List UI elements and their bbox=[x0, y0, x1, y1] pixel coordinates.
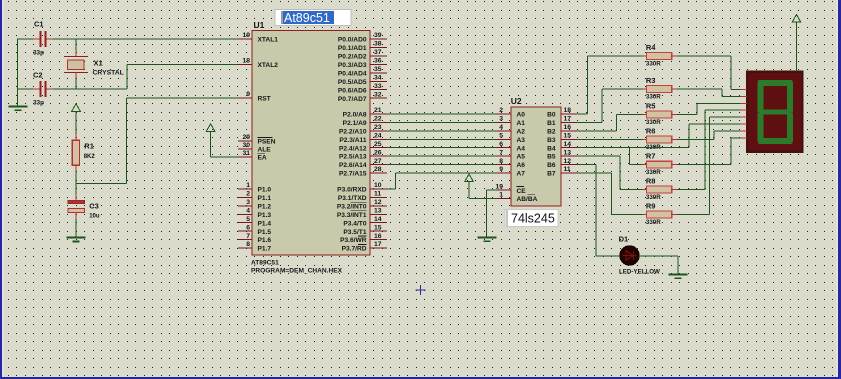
op chip U1 AT89C51 body bbox=[252, 20, 370, 255]
svg-text:33p: 33p bbox=[33, 50, 44, 57]
svg-text:15: 15 bbox=[374, 224, 382, 231]
svg-text:12: 12 bbox=[374, 199, 382, 206]
U1 pin 28 P2.7/A15 bbox=[339, 166, 387, 177]
svg-text:30: 30 bbox=[242, 142, 250, 149]
U2 pin 16 B2 bbox=[547, 124, 577, 135]
svg-text:P1.6: P1.6 bbox=[258, 237, 272, 244]
wire P2.1-A1 bbox=[387, 121, 497, 123]
svg-text:330R: 330R bbox=[646, 93, 661, 100]
svg-text:18: 18 bbox=[564, 107, 572, 114]
svg-text:P0.4/AD4: P0.4/AD4 bbox=[338, 70, 367, 77]
capacitor C2 bbox=[33, 71, 53, 107]
display pin stub 8 bbox=[740, 137, 747, 139]
svg-text:P1.7: P1.7 bbox=[258, 246, 272, 253]
svg-text:13: 13 bbox=[374, 208, 382, 215]
svg-text:P0.6/AD6: P0.6/AD6 bbox=[338, 87, 367, 94]
wire R9-display pin5 bbox=[677, 117, 740, 214]
display pin stub 5 bbox=[740, 116, 747, 118]
U1 pin 37 P0.2/AD2 bbox=[338, 49, 387, 60]
U2 pin 17 B1 bbox=[547, 116, 577, 127]
svg-text:R7: R7 bbox=[646, 152, 656, 161]
resistor R8 330R bbox=[643, 176, 677, 201]
wire P2.0-A0 bbox=[387, 113, 497, 115]
svg-text:5: 5 bbox=[499, 133, 503, 140]
U2 pin 14 B4 bbox=[547, 141, 577, 152]
wire R6-display pin7 bbox=[677, 131, 740, 140]
svg-text:8K2: 8K2 bbox=[84, 154, 96, 160]
svg-text:B7: B7 bbox=[547, 171, 556, 178]
svg-text:23: 23 bbox=[374, 124, 382, 131]
svg-text:P0.5/AD5: P0.5/AD5 bbox=[338, 79, 367, 86]
svg-text:RST: RST bbox=[258, 96, 271, 103]
svg-text:PSEN: PSEN bbox=[258, 139, 276, 146]
power arrow above R1 bbox=[72, 104, 81, 134]
wire XTAL2/C2 net bbox=[18, 64, 239, 89]
wire B4-R7 bbox=[577, 148, 689, 165]
svg-text:13: 13 bbox=[564, 149, 572, 156]
svg-text:P3.3/INT1: P3.3/INT1 bbox=[337, 212, 367, 219]
svg-text:34: 34 bbox=[374, 75, 382, 82]
resistor R5 330R bbox=[643, 101, 677, 126]
svg-text:P1.1: P1.1 bbox=[258, 195, 272, 202]
svg-text:10: 10 bbox=[374, 182, 382, 189]
svg-text:P0.2/AD2: P0.2/AD2 bbox=[338, 54, 367, 61]
74ls245 edit box bbox=[505, 210, 558, 227]
svg-text:14: 14 bbox=[564, 141, 572, 148]
wire R5-display pin3 bbox=[677, 103, 740, 114]
wire B3-R6 bbox=[577, 138, 643, 140]
U1 pin 27 P2.6/A14 bbox=[339, 158, 387, 169]
wire P3.0-A7 bbox=[387, 173, 497, 189]
svg-text:37: 37 bbox=[374, 49, 382, 56]
svg-text:R5: R5 bbox=[646, 101, 656, 110]
U1 pin 26 P2.5/A13 bbox=[339, 149, 387, 160]
svg-text:P0.7/AD7: P0.7/AD7 bbox=[338, 96, 367, 103]
svg-text:25: 25 bbox=[374, 141, 382, 148]
U1 pin 9 RST bbox=[238, 91, 271, 102]
svg-text:C3: C3 bbox=[89, 202, 99, 211]
svg-text:36: 36 bbox=[374, 58, 382, 65]
svg-text:P3.2/INT0: P3.2/INT0 bbox=[337, 203, 367, 210]
svg-text:17: 17 bbox=[374, 241, 382, 248]
svg-text:26: 26 bbox=[374, 149, 382, 156]
U1 pin 38 P0.1/AD1 bbox=[338, 41, 387, 52]
svg-text:A7: A7 bbox=[517, 171, 526, 178]
svg-text:A0: A0 bbox=[517, 112, 526, 119]
svg-text:R8: R8 bbox=[646, 176, 656, 185]
U2 pin 12 B6 bbox=[547, 158, 577, 169]
svg-text:P2.4/A12: P2.4/A12 bbox=[339, 145, 367, 152]
svg-text:D1: D1 bbox=[619, 234, 629, 243]
U1 pin 19 XTAL1 bbox=[238, 32, 278, 43]
svg-text:6: 6 bbox=[499, 141, 503, 148]
svg-text:B0: B0 bbox=[547, 112, 556, 119]
svg-text:R6: R6 bbox=[646, 126, 656, 135]
svg-text:8: 8 bbox=[246, 241, 250, 248]
svg-text:10u: 10u bbox=[89, 213, 100, 219]
svg-text:P3.4/T0: P3.4/T0 bbox=[343, 220, 366, 227]
U1 pin 31 EA bbox=[238, 150, 267, 161]
U2 pin 9 A7 bbox=[497, 166, 525, 177]
U1 pin 15 P3.5/T1 bbox=[343, 224, 387, 235]
wire R3-display pin2 bbox=[677, 89, 740, 96]
svg-text:P1.2: P1.2 bbox=[258, 203, 272, 210]
svg-text:LED-YELLOW: LED-YELLOW bbox=[619, 268, 660, 275]
U2 pin 2 A0 bbox=[497, 107, 525, 118]
display pin stub 1 bbox=[740, 89, 747, 91]
U1 pin 1 P1.0 bbox=[238, 182, 271, 193]
wire RST net bbox=[76, 98, 238, 194]
svg-text:35: 35 bbox=[374, 66, 382, 73]
wire XTAL1 net bbox=[18, 39, 239, 107]
svg-text:X1: X1 bbox=[94, 59, 103, 68]
svg-text:B5: B5 bbox=[547, 154, 556, 161]
wire R7-display pin8 bbox=[677, 138, 740, 165]
U1 pin 23 P2.2/A10 bbox=[339, 124, 387, 135]
svg-text:R1: R1 bbox=[84, 141, 94, 150]
display pin stub 2 bbox=[740, 95, 747, 97]
svg-text:12: 12 bbox=[564, 158, 572, 165]
svg-text:8: 8 bbox=[499, 158, 503, 165]
U1 pin 16 P3.6/WR bbox=[340, 233, 387, 244]
svg-text:B6: B6 bbox=[547, 162, 556, 169]
svg-text:B1: B1 bbox=[547, 120, 556, 127]
wire R8-display pin4 bbox=[677, 110, 740, 189]
svg-text:74ls245: 74ls245 bbox=[511, 212, 555, 226]
wire D1-ground bbox=[639, 256, 678, 273]
svg-text:P2.3/A11: P2.3/A11 bbox=[339, 137, 366, 144]
svg-text:P0.3/AD3: P0.3/AD3 bbox=[338, 62, 367, 69]
svg-text:11: 11 bbox=[564, 166, 571, 173]
svg-text:3: 3 bbox=[246, 199, 250, 206]
U2 pin 7 A5 bbox=[497, 149, 525, 160]
svg-text:31: 31 bbox=[242, 150, 250, 157]
svg-text:R3: R3 bbox=[646, 76, 656, 85]
U2 pin 15 B3 bbox=[547, 133, 577, 144]
svg-text:2: 2 bbox=[499, 107, 503, 114]
U1 pin 17 P3.7/RD bbox=[342, 241, 387, 252]
U1 pin 10 P3.0/RXD bbox=[337, 182, 387, 193]
svg-text:P0.0/AD0: P0.0/AD0 bbox=[338, 37, 367, 44]
display pin stub 7 bbox=[740, 130, 747, 132]
svg-text:24: 24 bbox=[374, 133, 382, 140]
resistor R3 330R bbox=[643, 76, 677, 101]
svg-text:R4: R4 bbox=[646, 43, 656, 52]
ground (left, below C2) bbox=[9, 105, 28, 111]
chip U2 74LS245 body bbox=[511, 96, 561, 206]
svg-text:4: 4 bbox=[499, 124, 503, 131]
wire B6-D1 bbox=[577, 165, 620, 256]
U1 pin 12 P3.2/INT0 bbox=[337, 199, 387, 210]
ground (right of D1) bbox=[668, 273, 687, 279]
svg-text:330R: 330R bbox=[646, 219, 661, 226]
crystal X1 bbox=[64, 51, 124, 79]
U2 pin 5 A3 bbox=[497, 133, 525, 144]
U1 pin 21 P2.0/A8 bbox=[343, 107, 387, 118]
svg-text:16: 16 bbox=[564, 124, 572, 131]
svg-text:28: 28 bbox=[374, 166, 382, 173]
svg-text:7: 7 bbox=[499, 149, 503, 156]
wire P2.2-A2 bbox=[387, 130, 497, 132]
U1 pin 32 P0.7/AD7 bbox=[338, 91, 387, 102]
U1 pin 14 P3.4/T0 bbox=[343, 216, 387, 227]
svg-text:A5: A5 bbox=[517, 154, 526, 161]
svg-text:C2: C2 bbox=[33, 71, 43, 80]
svg-text:XTAL2: XTAL2 bbox=[258, 62, 279, 69]
svg-text:330R: 330R bbox=[646, 119, 661, 126]
svg-text:P3.5/T1: P3.5/T1 bbox=[343, 229, 366, 236]
svg-text:U2: U2 bbox=[511, 96, 522, 106]
svg-text:19: 19 bbox=[242, 32, 250, 39]
U2 pin 1 AB/BA bbox=[497, 192, 538, 203]
svg-text:1: 1 bbox=[499, 192, 503, 199]
svg-text:19: 19 bbox=[495, 183, 503, 190]
svg-text:P2.5/A13: P2.5/A13 bbox=[339, 154, 367, 161]
wire P2.5-A5 bbox=[387, 155, 497, 157]
U1 pin 34 P0.5/AD5 bbox=[338, 75, 387, 86]
U2 pin 8 A6 bbox=[497, 158, 525, 169]
U1 pin 8 P1.7 bbox=[238, 241, 271, 252]
wire B0-R4 bbox=[577, 56, 643, 114]
svg-text:P3.6/WR: P3.6/WR bbox=[340, 237, 367, 244]
svg-text:P2.1/A9: P2.1/A9 bbox=[343, 120, 367, 127]
svg-text:C1: C1 bbox=[34, 20, 44, 29]
svg-text:39: 39 bbox=[374, 32, 382, 39]
svg-text:7: 7 bbox=[246, 233, 250, 240]
power arrow near EA bbox=[206, 124, 238, 157]
U1 pin 6 P1.5 bbox=[238, 224, 271, 235]
svg-text:P0.1/AD1: P0.1/AD1 bbox=[338, 45, 367, 52]
svg-text:P1.5: P1.5 bbox=[258, 229, 272, 236]
svg-text:P1.3: P1.3 bbox=[258, 212, 272, 219]
U1 pin 39 P0.0/AD0 bbox=[338, 32, 387, 43]
svg-text:A4: A4 bbox=[517, 145, 526, 152]
U1 pin 22 P2.1/A9 bbox=[343, 116, 387, 127]
svg-text:9: 9 bbox=[499, 166, 503, 173]
svg-text:33p: 33p bbox=[33, 100, 44, 107]
svg-text:ALE: ALE bbox=[258, 147, 272, 154]
svg-text:3: 3 bbox=[499, 116, 503, 123]
svg-text:P3.1/TXD: P3.1/TXD bbox=[338, 195, 367, 202]
svg-text:32: 32 bbox=[374, 91, 382, 98]
svg-text:P3.0/RXD: P3.0/RXD bbox=[337, 187, 367, 194]
svg-text:21: 21 bbox=[374, 107, 382, 114]
svg-text:11: 11 bbox=[374, 191, 381, 198]
U1 pin 25 P2.4/A12 bbox=[339, 141, 387, 152]
U1 pin 18 XTAL2 bbox=[238, 58, 278, 69]
svg-text:15: 15 bbox=[564, 133, 572, 140]
U1 pin 11 P3.1/TXD bbox=[338, 191, 387, 202]
svg-text:9: 9 bbox=[246, 91, 250, 98]
svg-text:U1: U1 bbox=[254, 20, 265, 30]
U2 pin 13 B5 bbox=[547, 149, 577, 160]
svg-text:At89c51: At89c51 bbox=[284, 11, 330, 25]
wire P2.6-A6 bbox=[387, 164, 497, 166]
svg-text:330R: 330R bbox=[646, 169, 661, 176]
svg-text:EA: EA bbox=[258, 154, 267, 161]
svg-text:5: 5 bbox=[246, 216, 250, 223]
svg-text:P2.2/A10: P2.2/A10 bbox=[339, 129, 367, 136]
svg-text:38: 38 bbox=[374, 41, 382, 48]
U1 pin 24 P2.3/A11 bbox=[339, 133, 387, 144]
U1 pin 35 P0.4/AD4 bbox=[338, 66, 387, 77]
svg-text:6: 6 bbox=[246, 224, 250, 231]
display pin stub 3 bbox=[740, 102, 747, 104]
U1 pin 3 P1.2 bbox=[238, 199, 271, 210]
U2 pin 11 B7 bbox=[547, 166, 577, 177]
U2 pin 19 CE bbox=[495, 183, 526, 194]
resistor R1 bbox=[72, 134, 95, 172]
svg-text:33: 33 bbox=[374, 83, 382, 90]
svg-text:A2: A2 bbox=[517, 129, 526, 136]
svg-text:2: 2 bbox=[246, 191, 250, 198]
wire B1-R3 bbox=[577, 89, 643, 122]
ground (below U2 CE) bbox=[478, 190, 498, 242]
svg-text:B4: B4 bbox=[547, 145, 556, 152]
U1 pin 7 P1.6 bbox=[238, 233, 271, 244]
svg-text:17: 17 bbox=[564, 116, 572, 123]
svg-text:16: 16 bbox=[374, 233, 382, 240]
wire B5-R8 bbox=[577, 156, 643, 189]
mouse crosshair cursor bbox=[416, 285, 426, 295]
svg-text:330R: 330R bbox=[646, 194, 661, 201]
ground (below C3) bbox=[67, 237, 86, 243]
power arrow for AB/BA bbox=[465, 174, 497, 198]
U2 pin 18 B0 bbox=[547, 107, 577, 118]
U1 pin 29 PSEN bbox=[238, 134, 276, 145]
svg-text:29: 29 bbox=[242, 134, 250, 141]
svg-text:330R: 330R bbox=[646, 60, 661, 67]
svg-text:AT89C51: AT89C51 bbox=[251, 260, 279, 267]
display pin stub 6 bbox=[740, 123, 747, 125]
svg-text:CE: CE bbox=[517, 188, 527, 195]
svg-text:P1.0: P1.0 bbox=[258, 187, 272, 194]
svg-text:XTAL1: XTAL1 bbox=[258, 37, 279, 44]
svg-text:P1.4: P1.4 bbox=[258, 220, 272, 227]
U1 part number text bbox=[251, 260, 343, 275]
svg-text:18: 18 bbox=[242, 58, 250, 65]
svg-text:B2: B2 bbox=[547, 129, 556, 136]
svg-text:22: 22 bbox=[374, 116, 382, 123]
svg-text:27: 27 bbox=[374, 158, 382, 165]
svg-text:AB/BA: AB/BA bbox=[517, 196, 538, 203]
svg-text:PROGRAM=DEM_CHAN.HEX: PROGRAM=DEM_CHAN.HEX bbox=[251, 268, 343, 275]
wire B7-R9 bbox=[577, 173, 643, 215]
svg-text:A1: A1 bbox=[517, 120, 526, 127]
U1 pin 5 P1.4 bbox=[238, 216, 271, 227]
svg-text:1: 1 bbox=[246, 182, 250, 189]
U1 pin 2 P1.1 bbox=[238, 191, 271, 202]
At89c51 edit box bbox=[275, 10, 351, 26]
svg-text:A6: A6 bbox=[517, 162, 526, 169]
svg-text:B3: B3 bbox=[547, 137, 556, 144]
wire P2.4-A4 bbox=[387, 147, 497, 149]
svg-text:4: 4 bbox=[246, 208, 250, 215]
svg-text:A3: A3 bbox=[517, 137, 526, 144]
U2 pin 6 A4 bbox=[497, 141, 525, 152]
wire R4-display pin1 bbox=[677, 56, 740, 90]
U1 pin 33 P0.6/AD6 bbox=[338, 83, 387, 94]
U1 pin 30 ALE bbox=[238, 142, 271, 153]
U2 pin 4 A2 bbox=[497, 124, 525, 135]
wire B4 branch-display pin6 bbox=[689, 124, 740, 148]
power arrow top right (display common) bbox=[792, 15, 801, 72]
svg-text:R9: R9 bbox=[646, 201, 656, 210]
svg-text:CRYSTAL: CRYSTAL bbox=[93, 70, 124, 77]
svg-text:14: 14 bbox=[374, 216, 382, 223]
LED D1 bbox=[619, 234, 660, 275]
svg-text:P3.7/RD: P3.7/RD bbox=[342, 246, 367, 253]
resistor R4 330R bbox=[643, 43, 677, 68]
capacitor C3 bbox=[68, 194, 100, 238]
svg-text:P2.6/A14: P2.6/A14 bbox=[339, 162, 367, 169]
wire B2-R5 bbox=[577, 115, 643, 131]
display pin stub 4 bbox=[740, 109, 747, 111]
U1 pin 13 P3.3/INT1 bbox=[337, 208, 387, 219]
capacitor C1 bbox=[33, 20, 53, 57]
U2 pin 3 A1 bbox=[497, 116, 525, 127]
7-segment display bbox=[747, 72, 802, 152]
resistor R7 330R bbox=[643, 152, 677, 177]
svg-text:P2.7/A15: P2.7/A15 bbox=[339, 171, 367, 178]
resistor R6 330R bbox=[643, 126, 677, 151]
wire P2.3-A3 bbox=[387, 138, 497, 140]
svg-text:P2.0/A8: P2.0/A8 bbox=[343, 112, 367, 119]
resistor R9 330R bbox=[643, 201, 677, 226]
U1 pin 36 P0.3/AD3 bbox=[338, 58, 387, 69]
U1 pin 4 P1.3 bbox=[238, 208, 271, 219]
